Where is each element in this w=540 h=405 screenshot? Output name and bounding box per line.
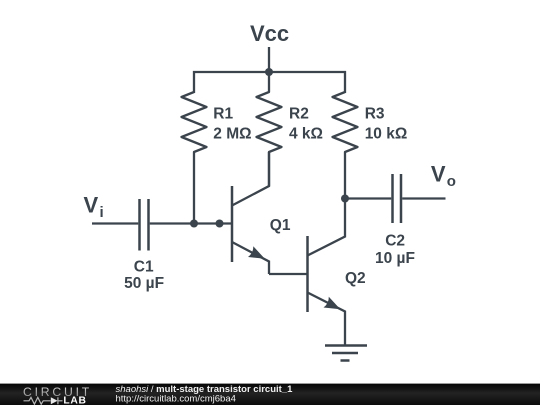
- svg-text:R1: R1: [213, 106, 233, 123]
- wire Vi to C1: [92, 222, 138, 224]
- svg-text:50 µF: 50 µF: [124, 275, 164, 292]
- svg-text:2 MΩ: 2 MΩ: [213, 125, 251, 142]
- wire Vcc rail: [194, 72, 345, 93]
- junction R1 on input wire: [190, 220, 198, 228]
- capacitor C1: [140, 199, 149, 251]
- resistor R3: [333, 92, 358, 199]
- svg-text:10 µF: 10 µF: [375, 250, 415, 267]
- svg-text:C2: C2: [385, 233, 405, 250]
- svg-text:10 kΩ: 10 kΩ: [365, 125, 408, 142]
- svg-text:i: i: [100, 204, 104, 221]
- svg-text:C1: C1: [134, 258, 154, 275]
- wire C2 to Vo: [402, 197, 445, 199]
- wire Vcc stub: [268, 47, 270, 73]
- wire C1 to Q1 base: [150, 222, 232, 224]
- wire Q1 emitter to Q2 base: [269, 273, 308, 275]
- svg-text:V: V: [431, 162, 446, 187]
- footer bar: [0, 384, 540, 405]
- svg-text:R3: R3: [365, 106, 385, 123]
- resistor R2: [257, 72, 282, 186]
- svg-text:Vcc: Vcc: [250, 21, 289, 46]
- node Vo label: [431, 162, 456, 191]
- transistor Q1: [232, 152, 269, 274]
- svg-text:4 kΩ: 4 kΩ: [289, 125, 323, 142]
- svg-text:http://circuitlab.com/cmj6ba4: http://circuitlab.com/cmj6ba4: [116, 393, 236, 404]
- svg-text:LAB: LAB: [63, 396, 86, 405]
- svg-text:Q2: Q2: [345, 270, 366, 287]
- capacitor C2: [393, 174, 402, 223]
- svg-text:Q1: Q1: [270, 217, 291, 234]
- junction on Vcc rail: [265, 68, 273, 76]
- junction base terminal: [216, 220, 224, 228]
- logo resistor-diode glyph: [24, 397, 63, 404]
- resistor R1: [182, 92, 207, 224]
- junction collector node: [341, 195, 349, 203]
- wire node to C2: [345, 197, 391, 199]
- ground: [325, 346, 367, 361]
- svg-text:V: V: [84, 193, 99, 218]
- transistor Q2: [308, 199, 346, 346]
- node Vi label: [84, 193, 104, 222]
- svg-text:o: o: [447, 173, 456, 190]
- svg-text:R2: R2: [289, 106, 309, 123]
